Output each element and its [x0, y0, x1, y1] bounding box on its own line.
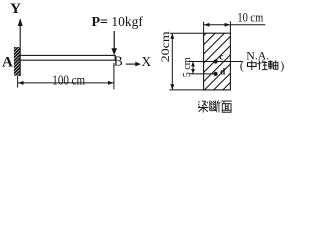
svg-text:X: X [141, 54, 151, 69]
point c [214, 59, 218, 63]
svg-text:c: c [219, 53, 223, 63]
cross-section rectangle [204, 33, 231, 90]
cross-section hatching [149, 33, 288, 90]
dimension extension line left [17, 76, 19, 88]
beam AB outline [20, 55, 115, 60]
load arrow P [113, 31, 115, 49]
line at point d level [189, 73, 216, 75]
glyph 軸 [268, 60, 278, 69]
glyph 中 [248, 60, 257, 70]
20 cm dimension tick bottom [170, 89, 204, 91]
svg-text:5 cm: 5 cm [181, 57, 193, 77]
glyph 面 [221, 101, 231, 112]
svg-text:N.A.: N.A. [246, 49, 269, 63]
svg-text:20cm: 20cm [158, 31, 172, 63]
20 cm dimension tick top [170, 32, 204, 34]
svg-text:B: B [114, 53, 123, 68]
10 cm dimension extension lines [203, 22, 205, 34]
Y axis line [19, 20, 21, 77]
svg-text:A: A [2, 54, 13, 70]
svg-text:(: ( [240, 61, 244, 73]
svg-text:P= 10kgf: P= 10kgf [92, 14, 144, 30]
dimension line 100 cm [18, 82, 113, 84]
glyph 斷 [210, 100, 221, 112]
Y axis arrowhead [18, 18, 23, 26]
X axis arrow [126, 63, 137, 65]
5 cm dimension line [192, 62, 194, 74]
neutral axis line [189, 61, 243, 63]
svg-text:100 cm: 100 cm [52, 73, 85, 88]
svg-text:): ) [280, 61, 284, 73]
glyph 梁 [198, 101, 208, 112]
dimension extension line right [113, 63, 115, 89]
point d [214, 72, 218, 76]
glyph 性 [258, 60, 268, 69]
svg-text:10 cm: 10 cm [237, 11, 263, 25]
20 cm dimension line [171, 34, 173, 90]
10 cm dimension line [204, 24, 265, 26]
fixed support hatching at A [12, 38, 24, 82]
svg-text:d: d [220, 67, 226, 77]
svg-text:Y: Y [10, 1, 21, 17]
